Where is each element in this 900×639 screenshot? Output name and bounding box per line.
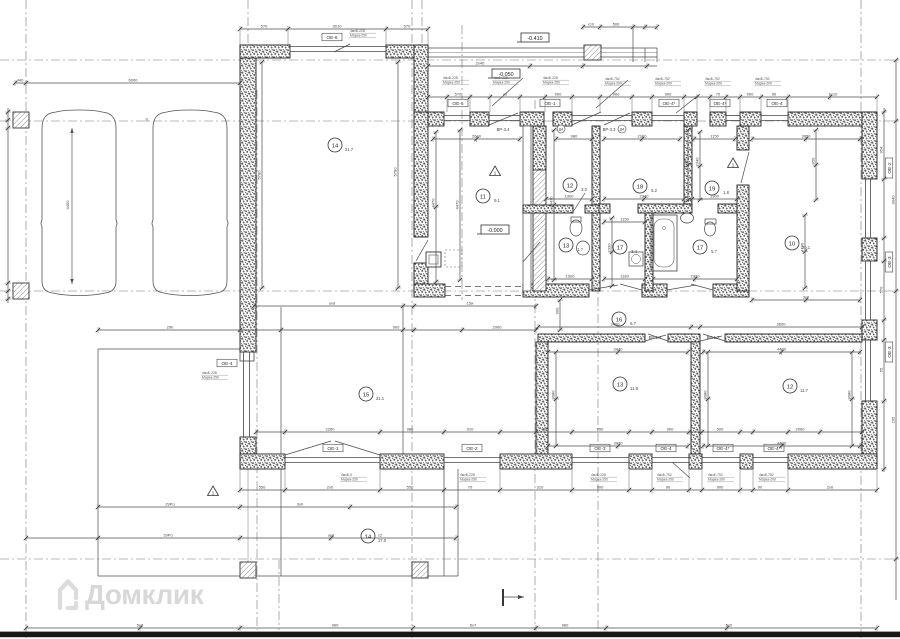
svg-text:980: 980: [407, 427, 414, 432]
svg-text:2330: 2330: [607, 243, 612, 253]
svg-text:5780: 5780: [393, 167, 398, 177]
svg-text:ОЕ-4: ОЕ-4: [771, 101, 783, 107]
svg-text:1180: 1180: [620, 274, 629, 279]
svg-text:900: 900: [717, 485, 724, 490]
svg-text:205: 205: [891, 416, 896, 423]
svg-text:570: 570: [455, 92, 462, 97]
svg-text:3600: 3600: [777, 322, 787, 327]
svg-text:5.7: 5.7: [711, 249, 717, 254]
svg-text:3970: 3970: [614, 441, 624, 446]
svg-text:ОЕ-1: ОЕ-1: [327, 446, 339, 452]
svg-text:1300: 1300: [710, 194, 720, 199]
svg-text:3x0: 3x0: [803, 295, 810, 300]
svg-text:ОЕ-4*: ОЕ-4*: [662, 101, 675, 107]
svg-text:11: 11: [480, 194, 486, 200]
svg-text:900: 900: [665, 92, 672, 97]
svg-text:12: 12: [567, 183, 573, 189]
svg-text:ОЕ-4*: ОЕ-4*: [716, 446, 729, 452]
svg-text:440: 440: [17, 78, 24, 83]
svg-text:4мзБ-228: 4мзБ-228: [543, 76, 558, 80]
svg-text:900: 900: [747, 92, 754, 97]
svg-text:3080: 3080: [847, 390, 852, 400]
svg-text:5780: 5780: [257, 170, 262, 180]
svg-text:5x8: 5x8: [137, 623, 144, 628]
svg-text:3x0: 3x0: [297, 502, 304, 507]
svg-text:4мзБ-228: 4мзБ-228: [460, 473, 475, 477]
svg-text:Марка-250: Марка-250: [202, 376, 219, 380]
svg-text:500: 500: [717, 427, 724, 432]
svg-text:70: 70: [716, 92, 721, 97]
svg-text:2340: 2340: [695, 157, 700, 167]
svg-text:29Po: 29Po: [165, 502, 175, 507]
svg-text:Марка-250: Марка-250: [493, 81, 510, 85]
svg-text:17: 17: [697, 245, 703, 251]
svg-text:4мзБ-228: 4мзБ-228: [493, 76, 508, 80]
svg-text:3.4: 3.4: [631, 249, 637, 254]
svg-text:55: 55: [879, 367, 884, 372]
svg-text:900: 900: [555, 307, 560, 314]
svg-text:4470: 4470: [455, 200, 460, 210]
svg-text:4480: 4480: [777, 347, 787, 352]
svg-text:4мзБ-752: 4мзБ-752: [655, 77, 670, 81]
svg-text:760: 760: [542, 427, 549, 432]
svg-text:310: 310: [537, 485, 544, 490]
svg-text:4480: 4480: [777, 441, 787, 446]
svg-text:ВР-3.3: ВР-3.3: [603, 127, 616, 132]
svg-text:4мзБ-752: 4мзБ-752: [657, 473, 672, 477]
svg-text:29h: 29h: [167, 325, 174, 330]
svg-text:2160: 2160: [638, 134, 648, 139]
svg-text:3080: 3080: [703, 390, 708, 400]
svg-text:950: 950: [811, 157, 816, 164]
svg-text:3.0: 3.0: [581, 187, 587, 192]
svg-text:4470: 4470: [549, 196, 554, 206]
svg-text:90: 90: [758, 485, 763, 490]
svg-text:17: 17: [617, 245, 623, 251]
svg-text:5x0: 5x0: [726, 623, 733, 628]
svg-text:ОЕ-3: ОЕ-3: [887, 256, 893, 268]
svg-text:4мзБ-752: 4мзБ-752: [755, 77, 770, 81]
svg-text:550: 550: [259, 485, 266, 490]
svg-text:Марка-250: Марка-250: [443, 81, 460, 85]
svg-text:Марка-250: Марка-250: [350, 34, 367, 38]
svg-text:2x0: 2x0: [327, 485, 334, 490]
svg-text:-0.410: -0.410: [527, 36, 542, 42]
svg-text:11.7: 11.7: [800, 388, 809, 393]
svg-text:960: 960: [332, 623, 339, 628]
svg-text:13: 13: [563, 243, 569, 249]
svg-text:1.8: 1.8: [723, 190, 729, 195]
svg-text:4мзБ-228: 4мзБ-228: [443, 76, 458, 80]
svg-text:500: 500: [613, 22, 620, 27]
svg-text:17.0: 17.0: [378, 538, 387, 543]
svg-text:ВР-1.4: ВР-1.4: [649, 335, 662, 340]
svg-text:ОЕ-3: ОЕ-3: [594, 446, 606, 452]
svg-text:1150: 1150: [620, 217, 629, 222]
svg-text:980: 980: [571, 134, 578, 139]
svg-text:2640: 2640: [472, 134, 482, 139]
svg-text:4470: 4470: [431, 198, 436, 208]
svg-text:Марка-200: Марка-200: [708, 478, 725, 482]
svg-text:Марка-200: Марка-200: [759, 478, 776, 482]
svg-text:Д4: Д4: [620, 128, 624, 132]
svg-text:Марка-200: Марка-200: [655, 82, 672, 86]
svg-text:900: 900: [555, 92, 562, 97]
svg-text:13: 13: [617, 382, 623, 388]
svg-text:10: 10: [789, 241, 795, 247]
svg-text:ОЕ-2: ОЕ-2: [466, 446, 478, 452]
svg-text:900: 900: [393, 325, 400, 330]
svg-text:1150: 1150: [710, 134, 719, 139]
svg-text:3x10: 3x10: [829, 92, 838, 97]
svg-text:ОЕ-4*: ОЕ-4*: [713, 101, 726, 107]
svg-text:4780: 4780: [800, 242, 805, 252]
svg-text:21.7: 21.7: [345, 147, 354, 152]
svg-text:4мзБ-752: 4мзБ-752: [605, 77, 620, 81]
svg-text:11.8: 11.8: [630, 386, 639, 391]
svg-text:Марка-250: Марка-250: [341, 478, 358, 482]
svg-text:2330: 2330: [691, 274, 701, 279]
svg-text:Домклик: Домклик: [85, 579, 205, 610]
svg-text:ОЕ-6: ОЕ-6: [326, 35, 338, 41]
svg-text:5x7: 5x7: [470, 623, 477, 628]
svg-text:90: 90: [666, 485, 671, 490]
svg-text:31.1: 31.1: [376, 396, 385, 401]
svg-text:19: 19: [709, 186, 715, 192]
svg-text:4мзБ-752: 4мзБ-752: [705, 77, 720, 81]
svg-text:5.2: 5.2: [651, 188, 657, 193]
svg-text:1300: 1300: [566, 274, 576, 279]
svg-text:ВР-3.4: ВР-3.4: [497, 127, 510, 132]
svg-text:Д4: Д4: [559, 128, 563, 132]
svg-text:Марка-200: Марка-200: [605, 82, 622, 86]
svg-text:29Po: 29Po: [163, 533, 173, 538]
svg-text:9.1: 9.1: [494, 198, 500, 203]
svg-text:2260: 2260: [326, 427, 336, 432]
svg-text:2340: 2340: [640, 194, 650, 199]
svg-text:Марка-200: Марка-200: [705, 82, 722, 86]
svg-text:950: 950: [597, 427, 604, 432]
svg-text:900: 900: [683, 157, 688, 164]
svg-text:18: 18: [637, 184, 643, 190]
svg-text:12: 12: [787, 384, 793, 390]
svg-text:ОЕ-1: ОЕ-1: [544, 101, 556, 107]
svg-text:570: 570: [404, 24, 411, 29]
svg-text:14: 14: [332, 143, 339, 149]
svg-text:Марка-250: Марка-250: [543, 81, 560, 85]
svg-text:70: 70: [468, 485, 473, 490]
svg-text:4мзБ-228: 4мзБ-228: [591, 473, 606, 477]
svg-text:570: 570: [879, 286, 884, 293]
svg-text:4мзБ-0: 4мзБ-0: [341, 473, 352, 477]
svg-text:90: 90: [772, 92, 777, 97]
svg-text:570: 570: [261, 24, 268, 29]
svg-text:4400: 4400: [65, 200, 70, 210]
svg-text:40: 40: [145, 118, 149, 122]
svg-text:2x40: 2x40: [476, 61, 485, 66]
svg-text:ВР-1.3: ВР-1.3: [707, 335, 720, 340]
svg-text:550: 550: [407, 485, 414, 490]
svg-text:ОЕ-2: ОЕ-2: [887, 162, 893, 174]
svg-text:Марка-250: Марка-250: [591, 478, 608, 482]
svg-text:Марка-200: Марка-200: [657, 478, 674, 482]
svg-text:Марка-250: Марка-250: [460, 478, 477, 482]
svg-text:14: 14: [365, 534, 372, 540]
svg-text:3010: 3010: [333, 24, 343, 29]
svg-text:900: 900: [667, 427, 674, 432]
svg-text:2900: 2900: [493, 325, 503, 330]
svg-text:3080: 3080: [551, 390, 556, 400]
svg-text:2x0: 2x0: [827, 485, 834, 490]
svg-text:1.7: 1.7: [577, 247, 583, 252]
svg-text:Марка-200: Марка-200: [755, 82, 772, 86]
svg-text:-0.000: -0.000: [487, 228, 502, 234]
svg-text:954: 954: [879, 146, 884, 153]
svg-text:uxd: uxd: [328, 533, 334, 538]
svg-text:2060: 2060: [796, 427, 806, 432]
svg-text:3400: 3400: [611, 322, 621, 327]
svg-text:ОЕ-4: ОЕ-4: [221, 361, 233, 367]
svg-text:960: 960: [562, 623, 569, 628]
svg-text:15: 15: [363, 392, 369, 398]
svg-text:3970: 3970: [614, 347, 624, 352]
svg-text:900: 900: [597, 485, 604, 490]
svg-text:4мзБ-752: 4мзБ-752: [708, 473, 723, 477]
svg-text:uxd: uxd: [329, 301, 335, 306]
svg-text:6000: 6000: [129, 78, 139, 83]
svg-text:x10: x10: [588, 22, 595, 27]
svg-text:ОЕ-4*: ОЕ-4*: [767, 446, 780, 452]
svg-text:ОЕ-3: ОЕ-3: [887, 346, 893, 358]
svg-text:3050: 3050: [802, 134, 812, 139]
svg-text:15и: 15и: [467, 301, 474, 306]
svg-text:4мзБ-752: 4мзБ-752: [759, 473, 774, 477]
svg-text:4мзБ-228: 4мзБ-228: [202, 371, 217, 375]
svg-text:4мзБ-228: 4мзБ-228: [350, 29, 365, 33]
svg-text:ОЕ-5: ОЕ-5: [452, 101, 464, 107]
svg-text:ОЕ-4: ОЕ-4: [660, 446, 672, 452]
svg-text:910: 910: [467, 427, 474, 432]
svg-text:1300: 1300: [565, 194, 575, 199]
svg-text:5.7: 5.7: [630, 321, 636, 326]
svg-text:3040: 3040: [891, 195, 896, 205]
